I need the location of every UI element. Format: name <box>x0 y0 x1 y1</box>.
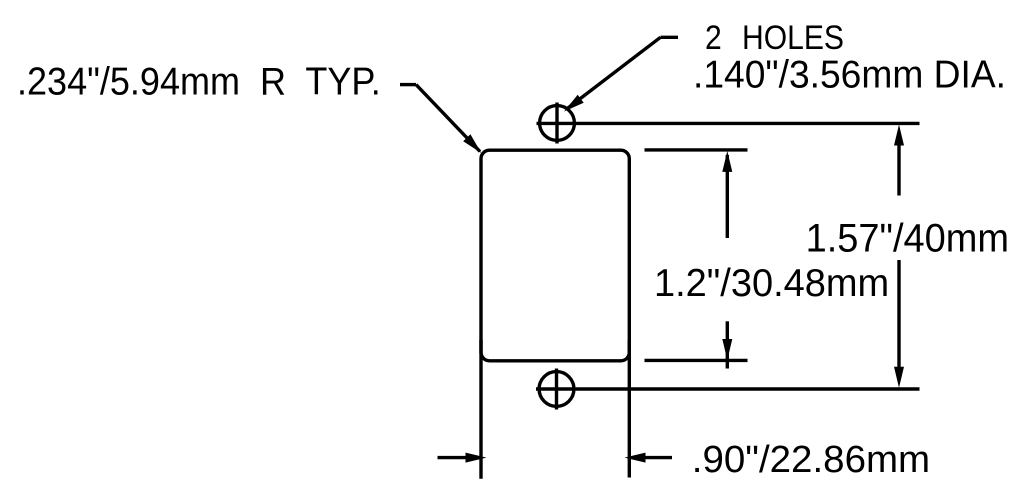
dimension .90 right shaft <box>643 456 672 459</box>
part outline rounded rectangle <box>481 150 629 361</box>
leader radius callout: dash <box>400 83 416 86</box>
svg-text:1.2"/30.48mm: 1.2"/30.48mm <box>654 262 889 305</box>
hole top circle <box>540 106 575 141</box>
arrowhead 1.57 top <box>894 125 904 146</box>
extension line 1.2 top <box>645 148 748 151</box>
arrowhead leader holes <box>564 95 584 112</box>
svg-text:2 HOLES: 2 HOLES <box>705 19 844 57</box>
arrowhead leader radius <box>463 134 481 153</box>
arrowhead 1.2 bottom <box>722 339 732 360</box>
svg-text:.234"/5.94mm R TYP.: .234"/5.94mm R TYP. <box>17 61 381 104</box>
leader to holes: diagonal <box>566 37 661 109</box>
svg-text:.140"/3.56mm DIA.: .140"/3.56mm DIA. <box>693 53 1006 96</box>
dimension line 1.2 lower shaft <box>726 321 729 352</box>
extension line 1.2 bottom <box>645 359 748 362</box>
hole bottom circle <box>539 372 574 407</box>
arrowhead 1.2 top <box>722 151 732 172</box>
hole bottom cross vertical <box>555 369 558 410</box>
svg-text:.90"/22.86mm: .90"/22.86mm <box>692 438 930 481</box>
dimension line 1.57 upper shaft <box>897 140 900 196</box>
leader to holes: dash <box>661 36 679 39</box>
dimension .90 left shaft <box>438 456 469 459</box>
hole top cross horizontal + extension line to 1.57 dim <box>537 122 920 125</box>
arrowhead .90 left <box>466 453 487 463</box>
extension line left (below part, for .90 dim) <box>479 340 482 479</box>
hole top cross vertical <box>555 103 558 144</box>
arrowhead .90 right <box>625 453 646 463</box>
svg-text:1.57"/40mm: 1.57"/40mm <box>806 217 1009 261</box>
hole bottom cross horizontal + extension line to 1.57 dim <box>536 387 920 390</box>
dimension line 1.2 spike through extension <box>726 352 729 369</box>
extension line right (below part, for .90 dim) <box>628 340 631 478</box>
arrowhead 1.57 bottom <box>894 367 904 388</box>
dimension line 1.57 lower shaft <box>897 260 900 372</box>
leader radius callout: diagonal <box>416 85 480 152</box>
dimension line 1.2 upper shaft <box>726 155 729 238</box>
